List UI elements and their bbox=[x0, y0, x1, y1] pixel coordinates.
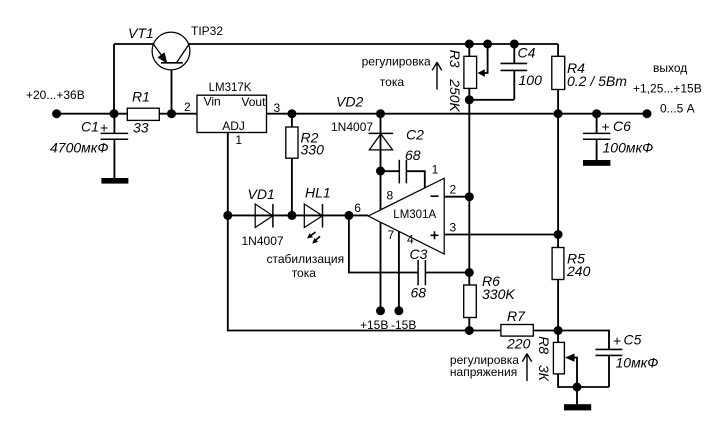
wire R2 branch bbox=[291, 114, 293, 216]
svg-text:250K: 250K bbox=[447, 78, 463, 112]
wire pin3 bbox=[444, 234, 558, 236]
svg-text:тока: тока bbox=[380, 75, 405, 89]
op-amp minus sign bbox=[431, 195, 439, 197]
capacitor C2 plates bbox=[399, 160, 406, 184]
svg-text:1: 1 bbox=[432, 163, 439, 177]
capacitor C1 plates bbox=[101, 133, 129, 139]
junction R3 bottom/C4 bottom bbox=[465, 95, 474, 104]
capacitor C4 plates bbox=[501, 63, 528, 70]
wire C6 branch bbox=[596, 114, 598, 160]
svg-text:+20...+36В: +20...+36В bbox=[26, 88, 85, 102]
arrow current-adjust bbox=[432, 62, 441, 89]
diode VD1 bbox=[255, 204, 273, 228]
resistor R2 bbox=[286, 127, 298, 158]
wire pin4 bbox=[398, 231, 400, 310]
svg-text:68: 68 bbox=[405, 147, 421, 163]
resistor R5 bbox=[552, 248, 564, 280]
node -15V terminal bbox=[394, 306, 403, 315]
ground R8 bbox=[564, 404, 591, 410]
svg-text:3: 3 bbox=[450, 220, 457, 234]
ground C1 bbox=[101, 178, 128, 184]
junction LM317 Vout/R2 node bbox=[287, 109, 296, 118]
svg-text:VD2: VD2 bbox=[336, 94, 363, 110]
wire R8 wiper bbox=[567, 358, 578, 387]
svg-text:10мкФ: 10мкФ bbox=[616, 354, 659, 370]
svg-text:R1: R1 bbox=[132, 89, 150, 105]
svg-text:7: 7 bbox=[388, 228, 395, 242]
svg-text:+: + bbox=[100, 120, 108, 136]
svg-text:240: 240 bbox=[566, 263, 591, 279]
svg-text:R3: R3 bbox=[447, 50, 463, 68]
svg-text:выход: выход bbox=[653, 61, 687, 75]
diode VD2 bbox=[369, 133, 394, 150]
svg-text:2: 2 bbox=[450, 183, 457, 197]
wire LED rail pin6 bbox=[228, 214, 368, 216]
resistor R3 potentiometer bbox=[464, 56, 477, 88]
svg-text:стабилизация: стабилизация bbox=[267, 252, 345, 266]
wire pin2 bbox=[444, 196, 469, 198]
ground C6 bbox=[583, 160, 610, 166]
wire R3 pin2 R6 vertical bbox=[468, 44, 470, 331]
junction VD2/C2/pin8 node bbox=[376, 167, 385, 176]
svg-text:ADJ: ADJ bbox=[222, 119, 245, 133]
R8 wiper arrow head bbox=[565, 354, 575, 362]
svg-text:напряжения: напряжения bbox=[450, 365, 517, 379]
junction R2/VD1/HL1 node bbox=[287, 211, 296, 220]
junction C3/R6 node bbox=[465, 268, 474, 277]
svg-text:4700мкФ: 4700мкФ bbox=[50, 139, 108, 155]
junction R5/R7/R8/C5 node bbox=[554, 326, 563, 335]
svg-text:Vin: Vin bbox=[204, 95, 221, 109]
wire ADJ down and bottom rail bbox=[228, 133, 609, 349]
wire C4 bottom to R3 bottom bbox=[469, 99, 514, 101]
LED HL1 bbox=[304, 204, 322, 244]
svg-text:330: 330 bbox=[301, 142, 325, 158]
svg-text:LM301A: LM301A bbox=[393, 209, 436, 221]
svg-text:1N4007: 1N4007 bbox=[331, 120, 373, 134]
op-amp plus sign bbox=[431, 231, 439, 239]
svg-text:C6: C6 bbox=[613, 118, 631, 134]
wire R4 R5 R8 vertical bbox=[558, 44, 609, 387]
junction C6/output rail bbox=[592, 109, 601, 118]
svg-text:6: 6 bbox=[354, 201, 361, 215]
svg-text:+1,25...+15В: +1,25...+15В bbox=[633, 81, 702, 95]
node input terminal +20...+36V bbox=[52, 109, 61, 118]
svg-text:220: 220 bbox=[506, 336, 531, 352]
wire main output rail bbox=[57, 113, 647, 115]
svg-text:VT1: VT1 bbox=[128, 25, 154, 41]
wire R3 wiper bbox=[485, 44, 488, 73]
svg-text:VD1: VD1 bbox=[248, 186, 275, 202]
junction ADJ/VD1 rail node bbox=[223, 211, 232, 220]
junction R4/output rail bbox=[554, 109, 563, 118]
resistor R7 bbox=[501, 325, 533, 337]
svg-text:C1: C1 bbox=[81, 118, 99, 134]
svg-text:C4: C4 bbox=[518, 45, 536, 61]
junction C4/top rail bbox=[510, 40, 519, 49]
wire R8 ground stem bbox=[576, 387, 578, 404]
svg-text:+15В: +15В bbox=[360, 318, 388, 332]
wire VD2 / pin8 branch bbox=[380, 114, 382, 210]
svg-text:R7: R7 bbox=[507, 308, 526, 324]
resistor R1 bbox=[127, 108, 159, 120]
svg-text:33: 33 bbox=[133, 120, 149, 136]
svg-text:3К: 3К bbox=[536, 365, 552, 382]
svg-text:Vout: Vout bbox=[241, 95, 266, 109]
junction HL1/pin6 node bbox=[344, 211, 353, 220]
svg-text:+: + bbox=[613, 333, 621, 349]
svg-text:2: 2 bbox=[184, 100, 191, 114]
svg-text:100: 100 bbox=[519, 72, 543, 88]
resistor R4 bbox=[552, 56, 565, 89]
svg-text:тока: тока bbox=[292, 266, 317, 280]
svg-text:регулировка: регулировка bbox=[362, 55, 431, 69]
transistor VT1 bbox=[152, 32, 190, 70]
resistor R8 potentiometer bbox=[553, 342, 564, 374]
R3 wiper arrow head bbox=[478, 69, 485, 77]
svg-text:8: 8 bbox=[387, 189, 394, 203]
junction R3 wiper/top rail bbox=[483, 40, 492, 49]
svg-text:R8: R8 bbox=[536, 336, 552, 354]
svg-text:68: 68 bbox=[411, 285, 427, 301]
junction R3 top/top rail bbox=[465, 40, 474, 49]
wire pin6 to C3 to R6 node bbox=[349, 215, 469, 272]
svg-text:0...5 А: 0...5 А bbox=[660, 101, 695, 115]
wire C4 vertical bbox=[513, 44, 515, 100]
IC U1 LM317K box bbox=[197, 95, 267, 132]
junction R6/bottom rail bbox=[465, 326, 474, 335]
junction pin3/R5 node bbox=[554, 230, 563, 239]
svg-text:-15В: -15В bbox=[391, 318, 416, 332]
svg-text:C2: C2 bbox=[406, 126, 424, 142]
wire C5 bottom bbox=[608, 356, 610, 387]
junction pin2/feedback node bbox=[465, 192, 474, 201]
svg-text:C3: C3 bbox=[410, 246, 428, 262]
wire C2 to pin1 bbox=[381, 171, 425, 188]
svg-text:LM317K: LM317K bbox=[209, 82, 252, 94]
junction VD2/output rail node VD2 bbox=[376, 109, 385, 118]
junction R1/VT1 base/LM317 Vin node bbox=[167, 109, 176, 118]
node output terminal bbox=[643, 109, 652, 118]
svg-text:3: 3 bbox=[274, 101, 281, 115]
svg-text:TIP32: TIP32 bbox=[191, 24, 223, 38]
junction C1/R1 node bbox=[110, 109, 119, 118]
capacitor C3 plates bbox=[418, 260, 425, 285]
svg-text:100мкФ: 100мкФ bbox=[603, 139, 654, 155]
svg-text:330K: 330K bbox=[482, 286, 515, 302]
resistor R6 bbox=[464, 285, 477, 318]
capacitor C6 plates bbox=[583, 133, 610, 139]
svg-text:1: 1 bbox=[235, 133, 242, 147]
svg-text:C5: C5 bbox=[624, 332, 642, 348]
wire C1 branch bbox=[113, 114, 115, 178]
wire left vertical input bbox=[113, 44, 115, 114]
svg-text:HL1: HL1 bbox=[305, 185, 331, 201]
wire transistor base down bbox=[171, 63, 173, 114]
capacitor C5 plates bbox=[596, 349, 623, 355]
op-amp U2 LM301A triangle bbox=[368, 178, 444, 254]
svg-text:0.2 / 5Вт: 0.2 / 5Вт bbox=[567, 73, 627, 89]
wire top rail bbox=[114, 43, 558, 45]
svg-text:1N4007: 1N4007 bbox=[242, 234, 284, 248]
node +15V terminal bbox=[376, 306, 385, 315]
arrow voltage-adjust bbox=[522, 354, 531, 381]
junction R8 wiper/ground node bbox=[573, 383, 582, 392]
svg-text:+: + bbox=[602, 119, 610, 135]
wire pin7 bbox=[380, 222, 382, 311]
svg-text:4: 4 bbox=[407, 233, 414, 247]
